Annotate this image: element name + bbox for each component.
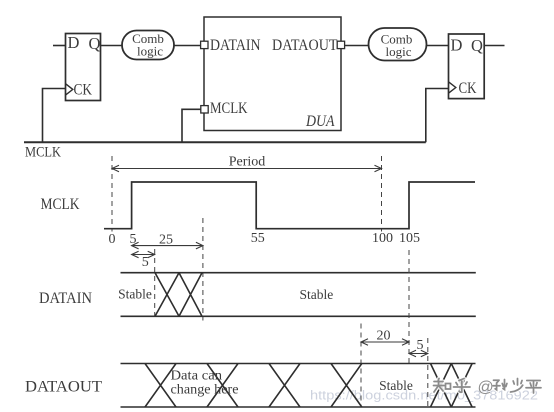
timing diagram bbox=[25, 155, 538, 408]
zhihu glyph 少 bbox=[511, 379, 523, 393]
svg-text:Data can: Data can bbox=[171, 368, 223, 383]
dimension arrow 20 bbox=[361, 339, 409, 346]
DATAOUT waveform label bbox=[25, 379, 103, 396]
time label 0 bbox=[109, 232, 116, 247]
svg-text:20: 20 bbox=[377, 329, 391, 344]
comb logic B1 bbox=[122, 31, 174, 60]
dashed line DATAOUT stable start bbox=[360, 324, 362, 408]
wire MCLK pin to net MCLK bbox=[182, 109, 201, 142]
svg-text:Stable: Stable bbox=[300, 287, 334, 302]
DATAOUT crossing X2 bbox=[207, 364, 238, 408]
svg-text:Stable: Stable bbox=[118, 287, 152, 302]
flip-flop U3 bbox=[449, 34, 485, 99]
Period dimension arrow bbox=[112, 155, 382, 172]
dimension arrow 25 bbox=[132, 242, 203, 249]
svg-text:DUA: DUA bbox=[305, 113, 335, 130]
watermark zhihu bbox=[434, 379, 542, 397]
DATAOUT crossing X3 bbox=[269, 364, 300, 408]
svg-text:D: D bbox=[68, 33, 80, 52]
svg-text:change here: change here bbox=[171, 382, 239, 397]
zhihu glyph @ bbox=[478, 379, 494, 396]
value label 25 bbox=[159, 233, 173, 248]
dimension arrow 5 (setup) bbox=[132, 251, 155, 258]
wire comb logic B2 to D of U3 bbox=[427, 45, 449, 47]
flip-flop U1 bbox=[66, 33, 101, 101]
svg-text:Q: Q bbox=[89, 34, 101, 53]
svg-text:logic: logic bbox=[137, 43, 163, 58]
svg-text:Period: Period bbox=[229, 155, 266, 170]
svg-text:MCLK: MCLK bbox=[210, 100, 248, 117]
wire CK input of U1 bbox=[43, 89, 66, 143]
pin DATAOUT bbox=[337, 41, 344, 48]
MCLK waveform label bbox=[41, 196, 81, 213]
DATAOUT crossing X6 bbox=[451, 364, 472, 408]
watermark csdn url bbox=[310, 388, 538, 403]
svg-text:Q: Q bbox=[471, 36, 483, 55]
wire Q output of U3 bbox=[484, 45, 504, 47]
svg-text:55: 55 bbox=[251, 231, 265, 246]
time label 100 bbox=[372, 231, 393, 246]
dashed line t=0 bbox=[111, 156, 113, 232]
net MCLK bus bbox=[24, 141, 426, 143]
svg-text:0: 0 bbox=[109, 232, 116, 247]
comb logic B2 bbox=[369, 28, 427, 61]
svg-text:5: 5 bbox=[142, 255, 149, 270]
zhihu glyph 平 bbox=[526, 381, 541, 394]
DATAIN waveform band bbox=[121, 273, 476, 317]
zhihu glyph 孙 bbox=[493, 380, 507, 390]
dashed line DATAIN change end bbox=[202, 218, 204, 321]
value label 20 bbox=[377, 329, 391, 344]
dimension arrow 5 (hold) bbox=[409, 350, 428, 357]
time label 55 bbox=[251, 231, 265, 246]
pin DATAIN bbox=[201, 41, 208, 48]
DUA block U2 bbox=[204, 17, 341, 131]
wire comb logic B1 to DATAIN pin bbox=[174, 45, 201, 47]
pin MCLK bbox=[201, 106, 208, 113]
DATAIN stable label right bbox=[300, 287, 334, 302]
dashed line t=100 bbox=[381, 156, 383, 232]
svg-text:@: @ bbox=[478, 379, 494, 396]
DATAIN stable label left bbox=[118, 287, 152, 302]
svg-text:MCLK: MCLK bbox=[25, 145, 61, 161]
svg-text:CK: CK bbox=[459, 80, 478, 97]
svg-text:105: 105 bbox=[399, 231, 420, 246]
svg-text:100: 100 bbox=[372, 231, 393, 246]
time label 5 bbox=[130, 232, 137, 247]
dashed line t=105 extended bbox=[408, 250, 410, 364]
wire CK input of U3 bbox=[426, 89, 449, 143]
wire DATAOUT pin to comb logic B2 bbox=[345, 45, 369, 47]
DATAOUT change annotation bbox=[171, 368, 239, 397]
DATAIN crossing X1 bbox=[155, 273, 179, 317]
value label 5 (setup) bbox=[142, 255, 149, 270]
value label 5 (hold) bbox=[417, 338, 424, 353]
zhihu glyph 知 bbox=[434, 379, 451, 393]
DATAOUT crossing X1 bbox=[145, 364, 176, 408]
svg-text:DATAOUT: DATAOUT bbox=[25, 379, 103, 396]
svg-text:CK: CK bbox=[74, 82, 93, 99]
wire D input of U1 bbox=[53, 45, 66, 47]
svg-text:MCLK: MCLK bbox=[41, 196, 81, 213]
dashed line DATAOUT stable end bbox=[427, 338, 429, 407]
DATAOUT crossing X4 bbox=[331, 364, 362, 408]
svg-text:logic: logic bbox=[386, 44, 412, 59]
svg-text:Stable: Stable bbox=[379, 378, 413, 393]
dashed line DATAIN change start bbox=[154, 249, 156, 321]
net MCLK label bbox=[25, 145, 61, 161]
DATAIN waveform label bbox=[39, 290, 92, 307]
svg-text:DATAOUT: DATAOUT bbox=[272, 37, 338, 54]
DATAOUT crossing X5 bbox=[431, 364, 452, 408]
DATAIN crossing X2 bbox=[179, 273, 202, 317]
svg-text:D: D bbox=[451, 36, 463, 55]
DATAOUT stable label bbox=[379, 378, 413, 393]
time label 105 bbox=[399, 231, 420, 246]
zhihu glyph 乎 bbox=[454, 379, 471, 393]
MCLK waveform bbox=[104, 182, 475, 229]
svg-text:DATAIN: DATAIN bbox=[39, 290, 92, 307]
DATAOUT waveform band bbox=[121, 364, 476, 408]
wire Q of U1 to comb logic B1 bbox=[101, 45, 123, 47]
svg-text:DATAIN: DATAIN bbox=[210, 37, 261, 54]
